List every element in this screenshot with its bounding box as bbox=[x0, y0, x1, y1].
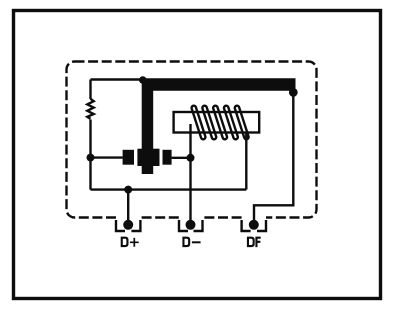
label D- bbox=[182, 237, 200, 248]
coil core bbox=[174, 112, 260, 133]
relay coil winding bbox=[192, 106, 249, 140]
node: left contact junction bbox=[87, 154, 95, 162]
wire: D+ lead bbox=[127, 190, 129, 225]
node: right end of thick bar bbox=[289, 88, 298, 97]
thick conductor bar (armature support) bbox=[142, 78, 296, 174]
wire: left vertical above resistor bbox=[89, 80, 91, 100]
wire: coil right lead down to bottom bus bbox=[245, 133, 247, 190]
terminal notch DF bbox=[242, 220, 266, 231]
wire: top horizontal from left branch to armature node bbox=[91, 78, 144, 80]
node: junction of top wire and thick bar bbox=[139, 76, 147, 84]
wire: D- lead bbox=[189, 158, 191, 225]
wire: coil left lead down to right contact node bbox=[189, 124, 191, 158]
node: right contact junction bbox=[187, 154, 195, 162]
node: bus junction for D+ bbox=[124, 186, 132, 194]
terminal DF bbox=[249, 220, 259, 230]
regulator housing (dashed outline) bbox=[67, 62, 317, 218]
wire: right contact to right node bbox=[172, 157, 191, 159]
terminal D- bbox=[186, 220, 196, 230]
wire: left node to left contact bbox=[91, 156, 123, 158]
wire: DF lead from thick bar right end bbox=[254, 92, 293, 224]
contact: right fixed contact bbox=[163, 150, 172, 165]
terminal notch D- bbox=[179, 220, 203, 231]
terminal notch D+ bbox=[116, 220, 140, 231]
wire: bottom bus bbox=[91, 188, 247, 190]
terminal D+ bbox=[123, 220, 133, 230]
contact: left fixed contact bbox=[123, 150, 134, 165]
contact: moving contact block on armature bbox=[137, 149, 159, 166]
label DF bbox=[247, 237, 261, 248]
wire: left vertical below resistor down to bottom bus bbox=[89, 120, 91, 190]
label D+ bbox=[121, 237, 139, 248]
resistor bbox=[87, 99, 93, 119]
